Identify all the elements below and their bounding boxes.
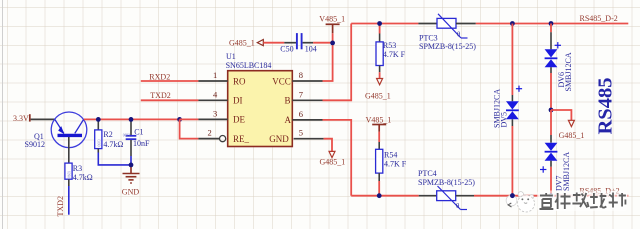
wire 3V3 to Q1 emitter [31, 118, 55, 120]
svg-text:RXD2: RXD2 [149, 72, 170, 81]
svg-text:PTC4: PTC4 [418, 169, 437, 178]
svg-text:0603: 0603 [68, 171, 72, 178]
svg-text:4.7K F: 4.7K F [384, 159, 407, 168]
transistor Q1 [25, 112, 87, 149]
svg-text:SMBJ12CA: SMBJ12CA [562, 152, 571, 191]
node junction DV6/DV7 [549, 108, 554, 113]
svg-text:C50: C50 [280, 45, 293, 54]
node junction DV5 bottom [510, 193, 515, 198]
svg-text:0603: 0603 [123, 134, 130, 138]
svg-text:3: 3 [213, 108, 217, 118]
svg-text:104: 104 [305, 45, 317, 54]
svg-text:R54: R54 [384, 150, 397, 159]
wire bottom rail right [474, 195, 628, 197]
svg-text:TXD2: TXD2 [150, 91, 170, 100]
svg-text:4: 4 [213, 89, 218, 99]
node junction at R2 top [96, 117, 101, 122]
svg-text:R53: R53 [383, 41, 396, 50]
svg-text:C1: C1 [134, 128, 143, 137]
PTC4 thermistor [418, 169, 475, 210]
wire R3 to TXD2 stub [68, 179, 70, 186]
svg-text:3.3V: 3.3V [13, 114, 29, 123]
svg-text:SPMZB-8(15-25): SPMZB-8(15-25) [419, 42, 476, 51]
node junction at gnd link [129, 163, 134, 168]
power port V485_1 top [319, 15, 345, 34]
power port G485_1 (pin5) [320, 151, 346, 166]
wire Q1 base to R3 [68, 137, 70, 163]
power port V485_1 (R54) [366, 115, 392, 131]
logo text (stylized) [537, 191, 627, 212]
wire R2 bottom to gnd node [97, 149, 99, 153]
IC U1 SN65LBC184 transceiver body [226, 52, 293, 147]
pin 4 DI [198, 89, 242, 105]
node junction DV6 top [549, 21, 554, 26]
svg-text:GND: GND [269, 134, 289, 144]
node junction R54 bottom [377, 193, 382, 198]
resistor R2 [95, 119, 124, 148]
wire pin6 A down to bottom rail [323, 120, 352, 196]
svg-text:RE_: RE_ [233, 134, 250, 144]
pin 6 A [285, 109, 323, 125]
pin 5 GND [269, 128, 323, 144]
svg-text:DI: DI [233, 96, 243, 106]
resistor R53 [376, 24, 406, 79]
svg-text:1: 1 [213, 70, 217, 80]
svg-text:VCC: VCC [272, 76, 291, 86]
svg-text:8: 8 [299, 70, 303, 80]
diode DV5 [493, 24, 523, 196]
svg-text:SMBJ12CA: SMBJ12CA [564, 52, 573, 91]
wire C1 bottom to gnd node [130, 140, 132, 156]
svg-text:RO: RO [233, 76, 246, 86]
svg-text:S9012: S9012 [25, 140, 45, 149]
svg-text:A: A [285, 115, 292, 125]
node junction DV7 bottom [549, 193, 554, 198]
svg-text:V485_1: V485_1 [366, 115, 392, 124]
node junction at C1 top [129, 117, 134, 122]
wire top rail right [476, 23, 629, 25]
svg-text:R2: R2 [103, 130, 112, 139]
svg-text:RS485: RS485 [595, 78, 617, 135]
power port G485_1 (mid) [551, 110, 584, 140]
svg-text:0603: 0603 [97, 139, 101, 146]
node junction R53 top [377, 21, 382, 26]
svg-text:G485_1: G485_1 [320, 158, 346, 167]
logo watermark [506, 192, 534, 212]
svg-text:G485_1: G485_1 [559, 131, 585, 140]
svg-text:6: 6 [299, 109, 303, 119]
pin 1 RO [198, 70, 246, 86]
wire pin5 to G485 port [324, 139, 332, 152]
svg-text:5: 5 [299, 128, 303, 138]
wire Q1 collector rail [84, 118, 180, 120]
svg-text:G485_1: G485_1 [229, 39, 255, 48]
pin 8 VCC [272, 70, 322, 86]
wire RXD2 [141, 80, 199, 82]
svg-text:2: 2 [208, 128, 212, 138]
power port 3V3 [13, 114, 30, 123]
svg-text:RS485_D-2: RS485_D-2 [580, 14, 618, 23]
wire RE [180, 119, 199, 138]
wire pin7 B up to top rail [323, 24, 352, 101]
node junction DE/RE [177, 117, 182, 122]
wire bottom rail left [351, 195, 419, 197]
svg-text:R3: R3 [73, 164, 82, 173]
power port G485_1 (R53) [365, 79, 391, 101]
diode DV7 [540, 110, 571, 196]
capacitor C1 [123, 119, 150, 148]
wire TXD2 [141, 99, 199, 101]
node junction DV5 top [510, 21, 515, 26]
node junction V485/C50 [330, 41, 335, 46]
svg-text:TXD2: TXD2 [56, 196, 65, 216]
ground GND [122, 165, 140, 196]
svg-text:PTC3: PTC3 [419, 33, 438, 42]
svg-text:DV5: DV5 [500, 112, 509, 128]
resistor R3 [65, 163, 93, 182]
pin 7 B [285, 89, 323, 105]
sheet border [2, 0, 4, 229]
capacitor C50 with G485 port [229, 33, 331, 54]
svg-text:SPMZB-8(15-25): SPMZB-8(15-25) [418, 178, 475, 187]
svg-text:7: 7 [299, 89, 303, 99]
svg-text:4.7kΩ: 4.7kΩ [73, 173, 93, 182]
diode DV6 [545, 24, 573, 111]
node junction visible through logo [510, 193, 515, 198]
svg-text:U1: U1 [226, 52, 236, 61]
wire top rail left [351, 23, 418, 25]
svg-text:B: B [285, 96, 291, 106]
svg-text:4.7K F: 4.7K F [383, 50, 406, 59]
svg-text:10nF: 10nF [133, 139, 150, 148]
svg-text:GND: GND [122, 187, 140, 196]
wire DE [180, 118, 199, 120]
svg-text:V485_1: V485_1 [319, 15, 345, 24]
PTC3 thermistor [418, 14, 476, 51]
svg-text:SN65LBC184: SN65LBC184 [226, 61, 272, 70]
pin 2 RE_ [198, 128, 249, 144]
resistor R54 [376, 132, 407, 196]
wire pin8 to V485 node [323, 43, 333, 81]
svg-text:DE: DE [233, 115, 245, 125]
pin 3 DE [198, 108, 245, 124]
svg-text:4.7kΩ: 4.7kΩ [103, 140, 123, 149]
svg-text:G485_1: G485_1 [365, 92, 391, 101]
